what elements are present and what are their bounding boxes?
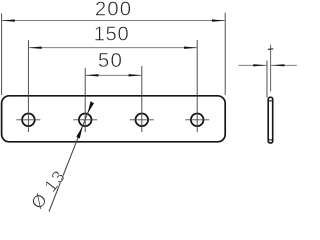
leader arrow lower (at hole H2 bottom-left edge) — [76, 126, 83, 139]
hole H4 — [191, 114, 204, 127]
hole H1 — [22, 114, 35, 127]
centerline H2 horizontal — [73, 119, 97, 121]
thickness extension line left — [266, 61, 268, 98]
dimension line 50 — [85, 74, 142, 76]
thickness dim line left segment — [239, 64, 268, 66]
thickness extension line right (runs up through dim line as leader stub) — [270, 45, 272, 92]
arrow 200 left — [2, 19, 15, 21]
centerline H4 horizontal — [185, 119, 209, 121]
dimension line 200 — [2, 20, 226, 22]
hole H2 — [79, 114, 92, 127]
arrow 200 right — [212, 19, 225, 21]
thickness dim line right segment — [271, 64, 297, 66]
centerline H3 horizontal — [130, 119, 154, 121]
centerline H3 vertical / extension for 50 — [141, 66, 143, 132]
thickness arrow left — [253, 64, 266, 66]
svg-text:150: 150 — [94, 24, 130, 46]
arrow 50 left — [85, 74, 98, 76]
svg-text:50: 50 — [98, 49, 123, 72]
centerline H1 horizontal — [16, 119, 40, 121]
centerline H4 vertical / extension for 150 — [196, 40, 198, 132]
side view corner radius line top — [268, 100, 273, 102]
dimension line 150 — [28, 47, 197, 49]
thickness arrow right — [272, 64, 285, 66]
arrow 150 right — [184, 47, 197, 49]
svg-text:200: 200 — [95, 0, 132, 20]
arrow 150 left — [28, 47, 41, 49]
thickness tick mark — [268, 48, 273, 51]
hole H3 — [136, 114, 149, 127]
extension line right for dim 200 — [224, 13, 226, 95]
arrow 50 right — [129, 74, 142, 76]
leader arrow upper (at hole H2 top-right edge) — [88, 101, 94, 113]
leader line for diameter callout — [49, 102, 92, 211]
extension line left for dim 200 — [1, 13, 3, 95]
centerline H1 vertical / extension for 150 — [27, 40, 29, 132]
plate outline (front view) — [2, 96, 226, 142]
side view plate outline — [268, 97, 273, 143]
centerline H2 vertical / extension for 50 — [84, 68, 86, 132]
side view corner radius line bottom — [268, 139, 273, 141]
